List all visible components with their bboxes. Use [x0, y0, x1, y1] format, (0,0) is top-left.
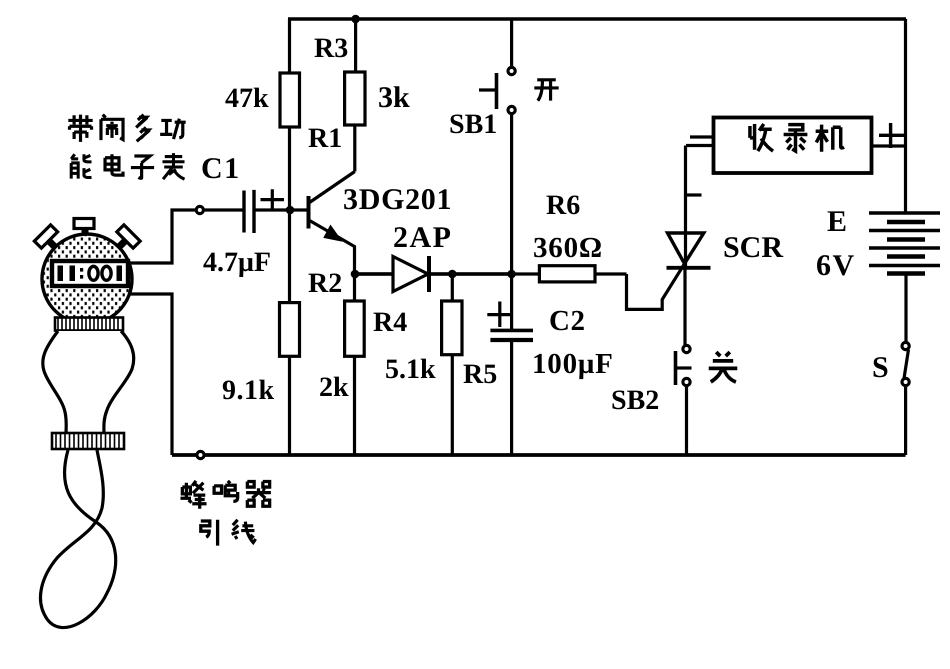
node at SB1 / C2 / R6 junction — [507, 270, 516, 279]
svg-text:R6: R6 — [546, 190, 580, 221]
svg-text:SB1: SB1 — [449, 109, 497, 140]
capacitor C2 100uF — [487, 274, 533, 455]
wire recorder left terminal to SCR anode — [686, 144, 714, 147]
svg-text:6V: 6V — [816, 249, 856, 282]
svg-text:9.1k: 9.1k — [222, 375, 275, 406]
wire from watch lower lead to bottom rail — [127, 294, 172, 455]
text label "蜂鸣器" (buzzer) — [180, 481, 270, 509]
svg-text:2AP: 2AP — [393, 221, 453, 254]
watch neck band (hatched) — [55, 318, 123, 331]
svg-text:E: E — [827, 205, 847, 238]
svg-text:5.1k: 5.1k — [385, 354, 436, 385]
pushbutton SB2 — [676, 345, 692, 455]
svg-text:R1: R1 — [308, 123, 342, 154]
junction at R3 top on top rail — [351, 15, 360, 24]
recorder box 收录机 (tape recorder) — [714, 118, 872, 174]
watch display 11:00 — [52, 261, 128, 286]
svg-text:R5: R5 — [463, 359, 497, 390]
buzzer lead cord loop — [40, 450, 115, 628]
SCR — [627, 146, 711, 346]
wire recorder right terminal to battery rail — [872, 144, 906, 147]
wire mid rail (R2 node to C2 node) — [355, 272, 512, 276]
resistor R4 2k — [345, 274, 365, 455]
svg-text:R2: R2 — [308, 268, 342, 299]
transistor Q 3DG201 — [309, 172, 355, 275]
wire bottom rail — [172, 453, 906, 457]
watch top crown button — [82, 228, 89, 243]
svg-text:C2: C2 — [549, 305, 585, 337]
watch body (stippled face) — [42, 234, 132, 324]
capacitor C1 4.7uF — [204, 189, 307, 233]
text label "开" (ON, for SB1) — [534, 80, 558, 101]
wire from watch upper lead to C1 — [128, 210, 196, 263]
resistor R2 9.1k — [280, 210, 300, 455]
switch S — [902, 342, 909, 455]
text label line1 "带闹多功" (multi-function watch with alarm, part 1) — [68, 115, 185, 142]
terminal circle lower — [197, 451, 204, 458]
svg-text:100μF: 100μF — [532, 348, 614, 380]
svg-text:R3: R3 — [314, 33, 348, 64]
terminal circle upper — [196, 206, 203, 213]
watch left side button — [48, 240, 57, 249]
node E (emitter / R4 / diode anode) — [351, 270, 360, 279]
text label "关" (OFF, for SB2) — [709, 352, 738, 382]
watch (multi-function electronic watch with alarm) — [34, 219, 140, 628]
plus polarity mark at recorder supply — [879, 123, 904, 148]
node B (transistor base / R1-R2 divider) — [286, 206, 295, 215]
svg-text:3k: 3k — [378, 81, 410, 114]
wire top rail — [288, 17, 906, 20]
svg-text:SCR: SCR — [723, 231, 783, 264]
watch lower band (hatched) — [52, 433, 124, 449]
svg-text:SB2: SB2 — [611, 385, 659, 416]
svg-text:R4: R4 — [373, 307, 407, 338]
resistor R1 47k — [280, 19, 300, 210]
svg-text:2k: 2k — [319, 372, 349, 403]
svg-text:3DG201: 3DG201 — [343, 183, 452, 216]
svg-text:360Ω: 360Ω — [533, 232, 603, 264]
resistor R5 5.1k — [442, 274, 462, 455]
battery E 6V — [869, 213, 940, 342]
resistor R3 3k — [345, 19, 365, 172]
text label line2 "能电子表" (part 2, electronic watch) — [71, 153, 184, 179]
pushbutton SB1 — [479, 19, 515, 274]
node at R5 top / diode cathode — [448, 270, 457, 279]
watch pouch — [43, 331, 134, 434]
svg-text:4.7μF: 4.7μF — [203, 247, 271, 278]
wire right rail — [904, 19, 907, 212]
recorder input jack dash — [690, 135, 714, 138]
svg-text:S: S — [872, 351, 889, 384]
resistor R6 360ohm — [512, 266, 627, 282]
svg-text:47k: 47k — [225, 83, 269, 114]
text label "收录机" (tape recorder, inside box) — [750, 124, 844, 152]
svg-text:C1: C1 — [201, 152, 241, 185]
text label "引线" (lead wires) — [201, 520, 256, 546]
diode 2AP — [355, 256, 512, 292]
watch right side button — [117, 240, 126, 249]
